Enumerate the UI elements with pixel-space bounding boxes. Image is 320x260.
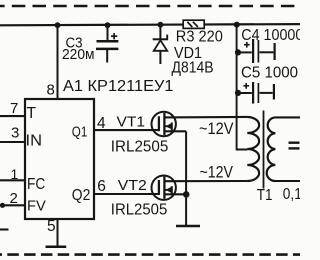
svg-text:FC: FC: [27, 176, 45, 193]
svg-text:6: 6: [97, 178, 106, 195]
svg-text:5: 5: [47, 218, 56, 235]
svg-text:IRL2505: IRL2505: [111, 202, 168, 219]
svg-text:FV: FV: [27, 198, 46, 214]
svg-text:7: 7: [10, 100, 18, 117]
svg-text:8: 8: [47, 82, 55, 99]
svg-text:0,1: 0,1: [283, 186, 300, 203]
svg-text:Q2: Q2: [72, 187, 91, 204]
svg-text:3: 3: [11, 125, 19, 142]
svg-text:VT1: VT1: [117, 114, 146, 131]
svg-text:Т1: Т1: [257, 187, 273, 204]
svg-text:220м: 220м: [62, 46, 95, 63]
svg-text:~12V: ~12V: [199, 119, 234, 138]
svg-text:R3 220: R3 220: [176, 28, 223, 45]
svg-text:Д814В: Д814В: [172, 59, 214, 76]
svg-text:T: T: [27, 105, 37, 122]
svg-text:Q1: Q1: [72, 124, 88, 140]
svg-text:2: 2: [10, 190, 18, 207]
svg-text:1: 1: [11, 166, 19, 182]
svg-text:C5 1000: C5 1000: [241, 64, 298, 81]
svg-text:IRL2505: IRL2505: [111, 139, 169, 156]
svg-text:C4 10000: C4 10000: [241, 27, 300, 44]
svg-text:IN: IN: [26, 133, 43, 150]
svg-text:А1 КР1211ЕУ1: А1 КР1211ЕУ1: [63, 78, 174, 95]
svg-text:~12V: ~12V: [200, 163, 234, 182]
svg-text:4: 4: [97, 115, 106, 132]
svg-text:VT2: VT2: [118, 177, 147, 194]
